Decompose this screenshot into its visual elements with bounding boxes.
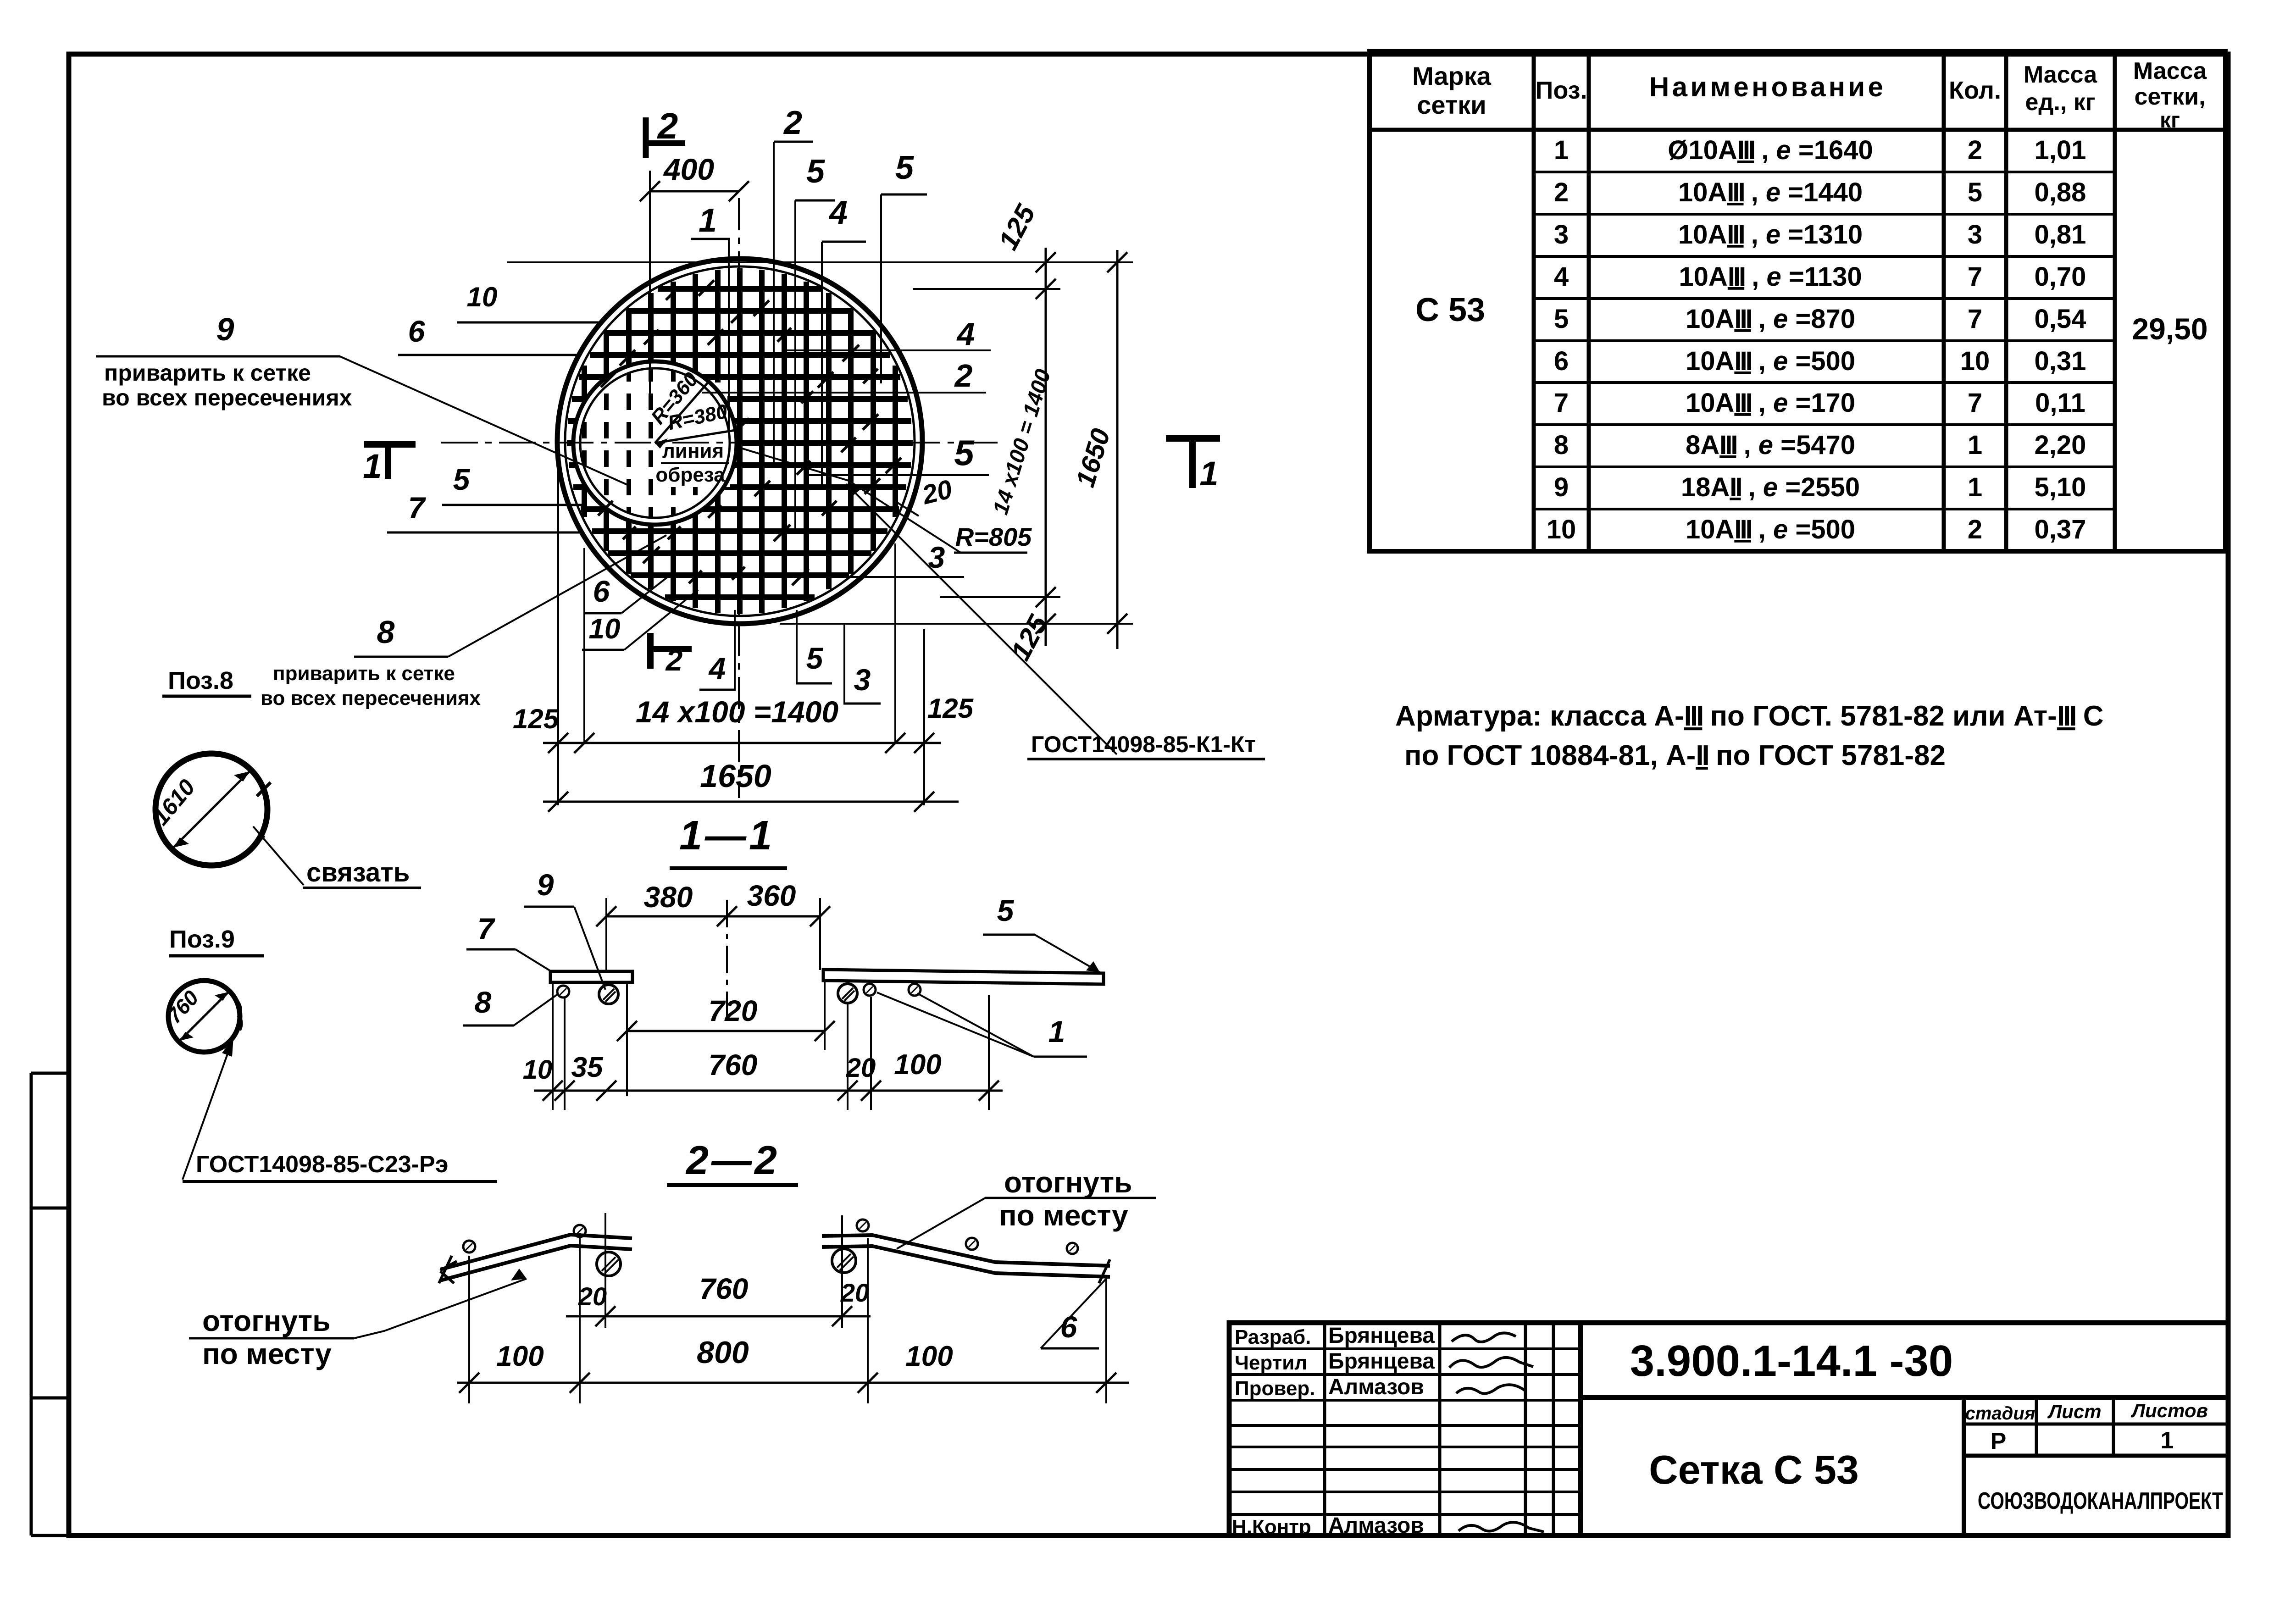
svg-text:2: 2: [665, 643, 683, 677]
svg-text:720: 720: [709, 994, 758, 1027]
leader GOST K1: [846, 484, 1265, 759]
svg-text:7: 7: [1968, 388, 1982, 418]
svg-text:Наименование: Наименование: [1649, 72, 1883, 102]
hole radius line R380: [655, 400, 735, 443]
svg-text:5: 5: [895, 150, 914, 186]
weld slashes on mesh: [598, 280, 901, 585]
svg-text:760: 760: [699, 1272, 749, 1305]
extension lines right: [507, 262, 1133, 624]
mesh inner rim circle: [565, 266, 915, 616]
parts table row 2: [1554, 177, 2086, 207]
svg-text:1: 1: [1968, 430, 1982, 460]
svg-text:1: 1: [1199, 454, 1218, 493]
leader 10 bottom-left: [582, 590, 698, 650]
leader 5 top-right: [881, 150, 927, 383]
svg-text:6: 6: [408, 314, 426, 348]
note 9 weld: [96, 311, 628, 485]
svg-text:125: 125: [513, 704, 560, 734]
parts table row 3: [1554, 220, 2086, 249]
bottom extension lines: [558, 461, 924, 805]
svg-text:Чертил: Чертил: [1235, 1352, 1307, 1374]
svg-text:1: 1: [363, 447, 382, 485]
svg-text:2—2: 2—2: [685, 1137, 780, 1183]
svg-text:обреза: обреза: [655, 464, 725, 486]
svg-text:7: 7: [408, 491, 427, 525]
svg-text:10: 10: [467, 282, 498, 312]
svg-text:С 53: С 53: [1415, 292, 1485, 328]
svg-text:сетки,: сетки,: [2134, 83, 2205, 110]
svg-text:2: 2: [1968, 515, 1982, 544]
detail Pos9 GOST text: [183, 1037, 497, 1181]
parts table grid: [1370, 51, 2225, 551]
svg-text:10: 10: [1960, 346, 1990, 376]
svg-text:4: 4: [828, 194, 848, 231]
title block stage cells: [1965, 1400, 2208, 1455]
svg-text:4: 4: [708, 651, 726, 685]
svg-text:5: 5: [806, 153, 825, 190]
section 1-1 right plate: [823, 970, 1104, 984]
left margin boxes: [31, 1073, 69, 1535]
svg-text:ГОСТ14098-85-С23-Рэ: ГОСТ14098-85-С23-Рэ: [196, 1151, 448, 1178]
mesh dashed bars inside hole: [584, 365, 695, 521]
svg-text:9: 9: [1554, 472, 1569, 502]
leader 5 upper-left: [795, 153, 835, 531]
svg-text:10АIII , e =1440: 10АIII , e =1440: [1678, 177, 1863, 207]
section 2-2 dim 760: [566, 1213, 871, 1328]
svg-text:Ø10АIII , e =1640: Ø10АIII , e =1640: [1668, 135, 1873, 165]
svg-text:20: 20: [840, 1278, 869, 1307]
signatures squiggles: [1449, 1333, 1544, 1532]
svg-text:Листов: Листов: [2130, 1400, 2208, 1421]
section 2-2 right circles: [832, 1219, 1078, 1273]
svg-text:10: 10: [1547, 515, 1576, 544]
svg-text:во всех пересечениях: во всех пересечениях: [102, 385, 352, 410]
svg-text:10АIII , e =170: 10АIII , e =170: [1686, 388, 1855, 418]
svg-text:8: 8: [475, 985, 492, 1019]
svg-text:5: 5: [1968, 177, 1982, 207]
title block signatures column: [1232, 1324, 1435, 1538]
dim 125 top right and 14x100 right: [988, 199, 1056, 665]
leader 5 left: [442, 462, 585, 505]
section 1-1 label 7: [466, 912, 553, 972]
svg-text:Лист: Лист: [2047, 1401, 2101, 1422]
svg-text:10АIII , e =1310: 10АIII , e =1310: [1678, 220, 1863, 249]
svg-text:Р: Р: [1991, 1428, 2007, 1455]
svg-text:760: 760: [709, 1048, 758, 1081]
svg-text:Алмазов: Алмазов: [1328, 1375, 1424, 1399]
section title 1-1: [670, 813, 787, 868]
svg-text:400: 400: [663, 152, 714, 186]
svg-text:1: 1: [2161, 1427, 2174, 1454]
svg-text:0,11: 0,11: [2035, 388, 2085, 418]
svg-text:Поз.: Поз.: [1536, 77, 1587, 104]
svg-text:3.900.1-14.1 -30: 3.900.1-14.1 -30: [1630, 1336, 1953, 1386]
svg-text:7: 7: [477, 912, 496, 946]
svg-text:10АIII , e =1130: 10АIII , e =1130: [1679, 262, 1862, 292]
armature note: [1395, 700, 2104, 771]
svg-text:5: 5: [806, 641, 824, 675]
svg-text:Брянцева: Брянцева: [1328, 1324, 1435, 1348]
section 1-1 label 9: [524, 868, 605, 990]
section marker 1 left: [363, 444, 416, 485]
svg-text:Масса: Масса: [2024, 61, 2097, 88]
leader 5 right: [808, 432, 989, 475]
svg-text:ед., кг: ед., кг: [2025, 89, 2096, 116]
svg-text:Алмазов: Алмазов: [1328, 1513, 1424, 1538]
svg-text:1—1: 1—1: [679, 813, 775, 859]
svg-text:7: 7: [1554, 388, 1569, 418]
svg-text:Разраб.: Разраб.: [1235, 1326, 1311, 1348]
svg-text:4: 4: [1554, 262, 1569, 292]
svg-text:5: 5: [997, 893, 1015, 927]
svg-text:360: 360: [747, 879, 796, 912]
leader 7 left: [387, 491, 580, 532]
svg-text:2: 2: [1554, 177, 1569, 207]
svg-text:380: 380: [644, 881, 693, 914]
svg-text:1: 1: [1968, 472, 1982, 502]
detail Pos9 label: [169, 926, 264, 956]
svg-text:стадия: стадия: [1965, 1403, 2035, 1424]
detail Pos8 text svyazat: [253, 826, 421, 888]
dim 1650 bottom: [543, 758, 959, 812]
svg-text:2,20: 2,20: [2035, 430, 2086, 460]
section 1-1 pos9 bar circle left: [599, 985, 618, 1004]
dim 400 top: [640, 152, 749, 395]
dim 1650 right: [1070, 250, 1127, 649]
svg-text:10АIII , e =500: 10АIII , e =500: [1686, 346, 1855, 376]
svg-text:1650: 1650: [700, 758, 771, 794]
svg-text:0,88: 0,88: [2035, 177, 2086, 207]
horizontal center line: [441, 442, 998, 443]
svg-text:по ГОСТ 10884-81, А-II по: по ГОСТ 10884-81, А-II по ГОСТ 5781-82: [1404, 740, 1946, 771]
svg-text:отогнуть: отогнуть: [202, 1304, 330, 1337]
svg-text:Марка: Марка: [1412, 61, 1492, 90]
leader 10 top-left: [457, 282, 599, 322]
svg-text:Масса: Масса: [2133, 58, 2207, 84]
svg-text:Арматура: класса А-III по: Арматура: класса А-III по ГОСТ. 5781-82 …: [1395, 700, 2104, 732]
svg-text:18АII , e =2550: 18АII , e =2550: [1681, 472, 1860, 502]
section 1-1 label 5: [983, 893, 1100, 972]
parts table row 7: [1554, 388, 2085, 418]
svg-text:по месту: по месту: [999, 1199, 1128, 1232]
section 2-2 right bar: [822, 1235, 1110, 1283]
detail Pos8 label: [162, 667, 251, 696]
svg-text:20: 20: [846, 1053, 876, 1083]
svg-text:0,70: 0,70: [2035, 262, 2086, 292]
svg-text:2: 2: [1968, 135, 1982, 165]
hole inner circle: [580, 368, 730, 518]
svg-text:35: 35: [571, 1052, 604, 1083]
svg-text:5: 5: [453, 462, 471, 496]
leader 2 upper: [774, 105, 813, 466]
section 1-1 pos8 bar circle: [557, 986, 569, 998]
svg-text:3: 3: [1554, 220, 1569, 249]
svg-text:приварить к сетке: приварить к сетке: [273, 662, 455, 685]
svg-text:Кол.: Кол.: [1949, 77, 2001, 104]
svg-text:2: 2: [783, 105, 802, 141]
svg-text:4: 4: [956, 316, 975, 352]
section 1-1 dim 380 360: [596, 879, 830, 1016]
parts table row 6: [1554, 346, 2086, 376]
svg-text:800: 800: [697, 1335, 749, 1370]
section 2-2 note right: [897, 1166, 1156, 1249]
svg-text:0,31: 0,31: [2035, 346, 2086, 376]
hole text knockouts: [664, 382, 727, 439]
section 1-1 left plate: [550, 971, 632, 982]
svg-text:ГОСТ14098-85-К1-Кт: ГОСТ14098-85-К1-Кт: [1031, 732, 1256, 757]
svg-text:Н.Контр: Н.Контр: [1232, 1516, 1311, 1538]
svg-text:6: 6: [593, 574, 610, 608]
title block frame: [1229, 1323, 2228, 1535]
section 1-1 dim 760 row: [523, 982, 1003, 1110]
svg-text:10АIII , e =500: 10АIII , e =500: [1686, 515, 1855, 544]
section title 2-2: [667, 1137, 798, 1185]
svg-text:Сетка С 53: Сетка С 53: [1649, 1447, 1859, 1492]
leader 5 bottom: [796, 610, 832, 683]
svg-text:Брянцева: Брянцева: [1328, 1349, 1435, 1374]
parts table row 5: [1554, 304, 2086, 334]
svg-text:2: 2: [657, 105, 678, 146]
svg-text:125: 125: [927, 693, 974, 724]
leader 1 top: [691, 202, 730, 433]
svg-text:8: 8: [377, 614, 395, 650]
parts table row 4: [1554, 262, 2086, 292]
svg-text:9: 9: [216, 311, 234, 347]
section 2-2 left small circles: [463, 1225, 586, 1253]
svg-text:1: 1: [699, 202, 717, 239]
svg-text:по месту: по месту: [202, 1337, 332, 1370]
svg-text:R=805: R=805: [955, 522, 1032, 551]
svg-text:5,10: 5,10: [2035, 472, 2086, 502]
svg-text:приварить к сетке: приварить к сетке: [104, 360, 311, 386]
leader 4 right: [782, 316, 991, 352]
svg-text:3: 3: [854, 663, 871, 697]
section 2-2 label 6: [1041, 1278, 1107, 1348]
mesh outer circle: [557, 259, 922, 624]
svg-text:20: 20: [578, 1282, 607, 1311]
leader 4 top: [822, 194, 866, 488]
leader 3 bottom: [843, 625, 881, 704]
svg-text:2: 2: [954, 358, 973, 394]
parts table row 9: [1554, 472, 2086, 502]
section 2-2 note left: [189, 1269, 527, 1370]
svg-text:во всех пересечениях: во всех пересечениях: [261, 687, 481, 709]
svg-text:100: 100: [905, 1341, 953, 1372]
mesh vertical bars: [584, 268, 895, 614]
svg-text:8: 8: [1554, 430, 1569, 460]
svg-text:связать: связать: [306, 858, 410, 887]
label R=805: [739, 448, 1032, 553]
svg-text:29,50: 29,50: [2132, 312, 2207, 346]
note 8 weld: [261, 535, 666, 709]
section 1-1 dim 720: [617, 982, 835, 1096]
parts table row 10: [1547, 515, 2086, 544]
mesh horizontal bars: [567, 289, 913, 597]
svg-text:5: 5: [954, 432, 975, 473]
svg-text:10: 10: [523, 1055, 553, 1085]
section 1-1 pos9 bar circle right: [838, 984, 857, 1003]
svg-text:Поз.9: Поз.9: [169, 926, 235, 953]
leader 4 bottom: [699, 610, 736, 690]
hole radius line R360: [647, 368, 710, 449]
svg-text:6: 6: [1554, 346, 1569, 376]
svg-text:100: 100: [496, 1341, 544, 1372]
label 20 right: [895, 474, 955, 516]
svg-text:сетки: сетки: [1417, 90, 1486, 119]
detail Pos8 circle: [148, 754, 271, 865]
svg-text:0,81: 0,81: [2035, 220, 2086, 249]
hole label line text: [655, 440, 729, 486]
svg-text:0,54: 0,54: [2035, 304, 2086, 334]
svg-text:1: 1: [1048, 1014, 1065, 1048]
svg-text:8АIII , e =5470: 8АIII , e =5470: [1686, 430, 1855, 460]
parts table row 8: [1554, 430, 2086, 460]
section marker 1 right: [1166, 438, 1220, 493]
svg-text:9: 9: [537, 868, 554, 902]
detail Pos9 circle: [162, 981, 241, 1052]
section marker 2 bottom: [649, 633, 692, 677]
dim 14x100=1400 bottom: [513, 693, 974, 753]
svg-text:10: 10: [589, 613, 621, 645]
parts table row 1: [1554, 135, 2086, 165]
svg-text:100: 100: [894, 1049, 941, 1081]
svg-text:линия: линия: [662, 440, 724, 462]
leader 2 right: [702, 358, 986, 394]
svg-text:14 х100 =1400: 14 х100 =1400: [636, 695, 839, 729]
hole outer circle: [573, 361, 737, 525]
svg-text:1: 1: [1554, 135, 1569, 165]
parts table headers: [1412, 58, 2207, 133]
svg-text:0,37: 0,37: [2035, 515, 2086, 544]
section 1-1 label 8: [463, 985, 558, 1025]
svg-text:Поз.8: Поз.8: [168, 667, 233, 694]
svg-text:3: 3: [1968, 220, 1982, 249]
svg-text:7: 7: [1968, 304, 1982, 334]
svg-text:10АIII , e =870: 10АIII , e =870: [1686, 304, 1855, 334]
section marker 2 top: [646, 105, 685, 158]
svg-text:7: 7: [1968, 262, 1982, 292]
leader 6 bottom-left: [584, 574, 671, 613]
svg-text:1,01: 1,01: [2035, 135, 2086, 165]
svg-text:5: 5: [1554, 304, 1569, 334]
section 2-2 dim 800: [457, 1233, 1129, 1403]
svg-text:отогнуть: отогнуть: [1004, 1166, 1132, 1199]
vertical center line: [738, 198, 740, 798]
section 1-1 label 1: [877, 992, 1087, 1057]
leader 3 right: [780, 540, 964, 577]
section 2-2 left bar: [439, 1235, 632, 1283]
svg-text:Провер.: Провер.: [1235, 1377, 1315, 1400]
svg-text:кг: кг: [2160, 108, 2180, 133]
section 2-2 left big circle: [597, 1252, 621, 1276]
svg-text:СОЮЗВОДОКАНАЛПРОЕКТ: СОЮЗВОДОКАНАЛПРОЕКТ: [1978, 1488, 2223, 1514]
leader 6 top-left: [398, 314, 580, 355]
section 1-1 small circles right: [864, 984, 921, 996]
svg-text:6: 6: [1060, 1310, 1078, 1344]
